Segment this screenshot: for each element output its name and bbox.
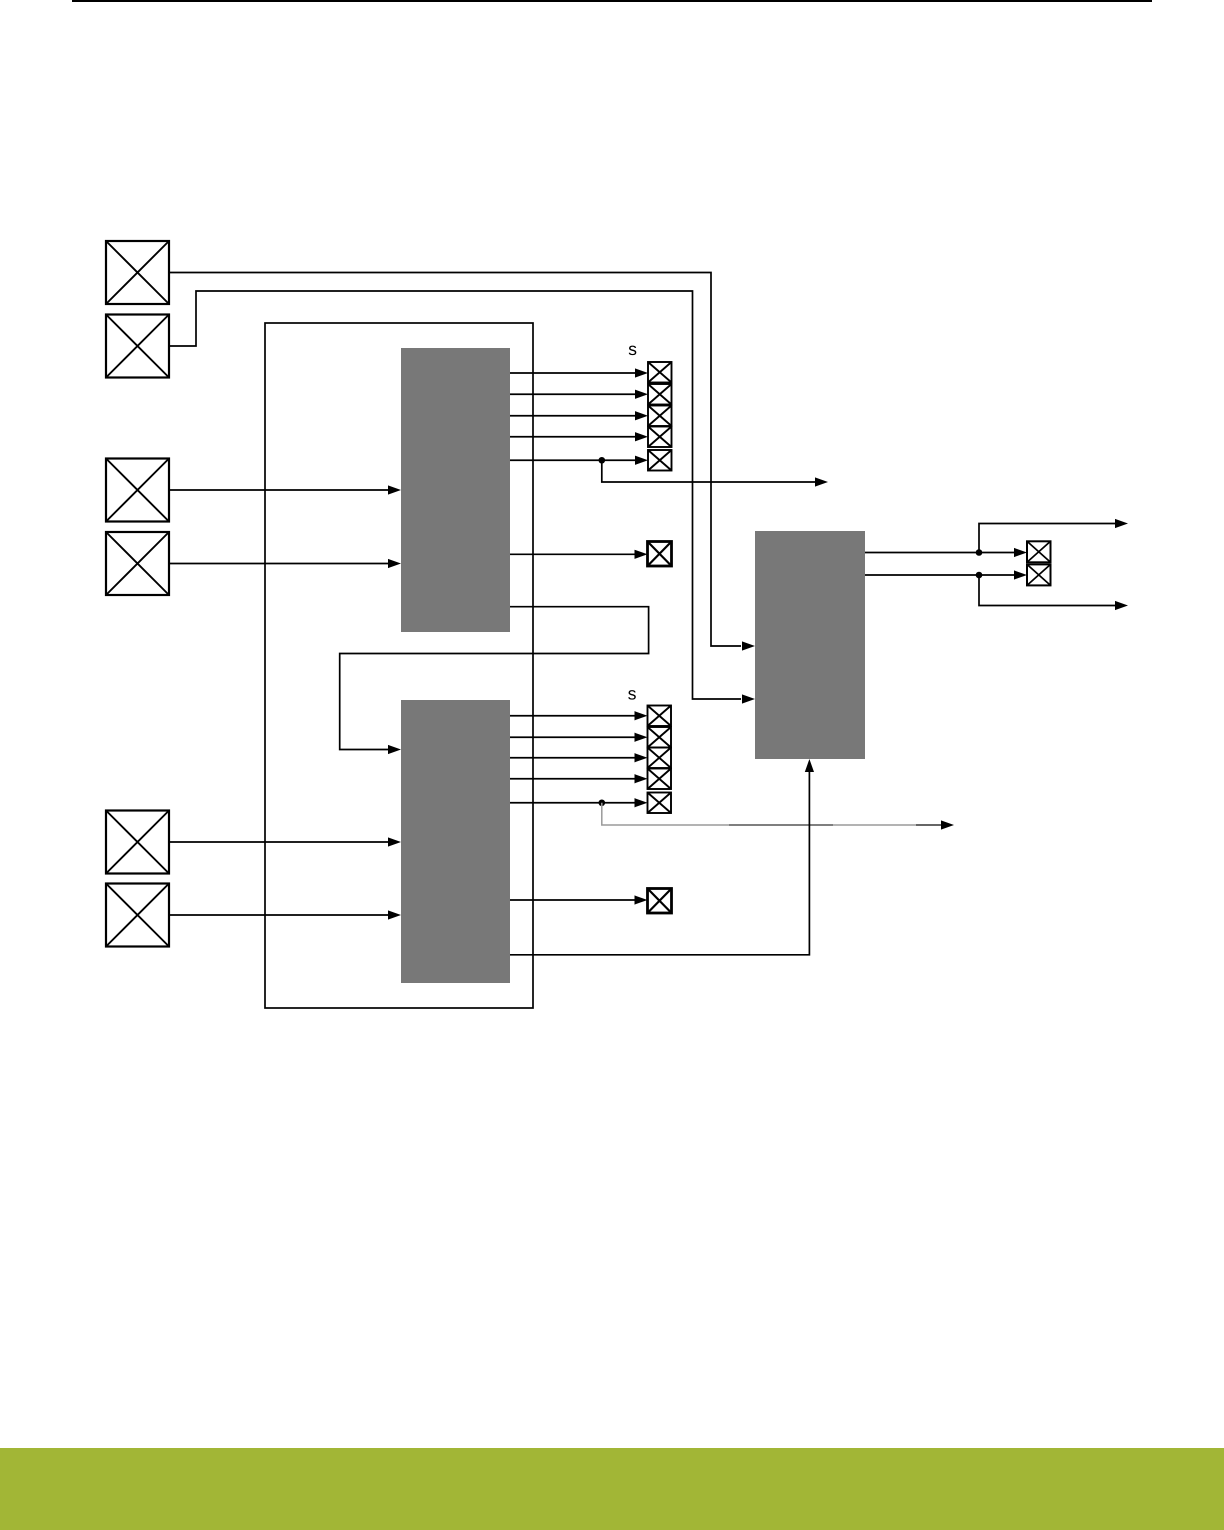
small pad stack 2 — [648, 706, 672, 814]
wire P4 to QEI1 input B — [169, 563, 388, 565]
label s (lower) — [628, 690, 636, 700]
output pad O1 — [1027, 541, 1051, 562]
wire P2 to mux input 2 — [169, 291, 741, 699]
wire P6 to QEI2 input B — [169, 914, 388, 916]
wire branch QEI2 index out (grey) — [602, 803, 729, 825]
wire QEI1 loop to QEI2 input — [340, 607, 649, 750]
block output mux — [755, 531, 865, 759]
QEI1 output wires to pad stack 1 — [510, 373, 635, 460]
wire branch down to right arrow 2 — [979, 575, 1115, 606]
wire P1 to mux input 1 — [169, 273, 741, 647]
wire QEI2 bottom to mux select — [510, 772, 809, 955]
QEI2 output wires to pad stack 2 — [510, 716, 635, 803]
wire branch up to right arrow 1 — [979, 524, 1115, 553]
wire QEI2 to single pad S2 — [510, 899, 635, 901]
pin P6 — [106, 884, 169, 947]
wire P5 to QEI2 input A — [169, 841, 388, 843]
mux output wire 1 — [865, 552, 1014, 554]
single pad S2 — [648, 889, 672, 914]
pin P4 — [106, 532, 169, 595]
output pad O2 — [1027, 564, 1051, 585]
small pad stack 1 — [648, 362, 672, 471]
junction dot on QEI2 index line — [599, 799, 606, 806]
module boundary box — [265, 323, 533, 1008]
label s (upper) — [629, 346, 637, 356]
block QEI1 — [401, 348, 510, 632]
mux output wire 2 — [865, 574, 1014, 576]
pin P1 (top-left crossed pad) — [106, 241, 169, 304]
footer green band — [0, 1448, 1224, 1530]
pin P3 — [106, 459, 169, 522]
wire QEI1 to single pad S1 — [510, 553, 635, 555]
junction dot mux out 1 — [976, 549, 983, 556]
top header rule — [72, 0, 1152, 2]
single pad S1 — [648, 542, 672, 567]
pin P2 — [106, 315, 169, 378]
wire branch QEI1 index out — [602, 460, 815, 482]
block QEI2 — [401, 700, 510, 983]
junction dot on QEI1 index line — [599, 457, 606, 464]
pin P5 — [106, 811, 169, 874]
wire P3 to QEI1 input A — [169, 489, 388, 491]
junction dot mux out 2 — [976, 572, 983, 579]
